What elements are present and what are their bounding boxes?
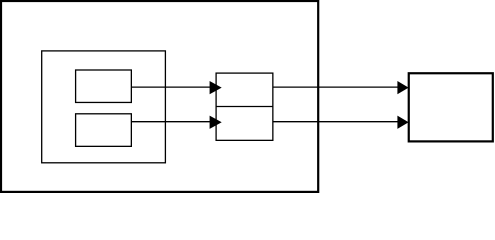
right output box <box>409 73 493 141</box>
arrowhead into middle box top cell <box>210 81 222 94</box>
wire: middle box bottom cell to right box <box>273 121 399 123</box>
wire: sub-block1 to middle box <box>131 86 210 88</box>
outer system boundary box <box>1 1 318 192</box>
middle two-cell box <box>216 73 273 140</box>
middle box divider line <box>216 106 273 108</box>
arrowhead into right box lower <box>397 116 408 129</box>
wire: sub-block2 to middle box <box>131 121 210 123</box>
arrowhead into middle box bottom cell <box>210 116 222 129</box>
inner group box <box>42 51 166 163</box>
arrowhead into right box upper <box>397 81 408 94</box>
sub-block 2 (lower small box) <box>76 114 132 147</box>
wire: middle box top cell to right box <box>273 86 399 88</box>
sub-block 1 (upper small box) <box>76 70 132 102</box>
